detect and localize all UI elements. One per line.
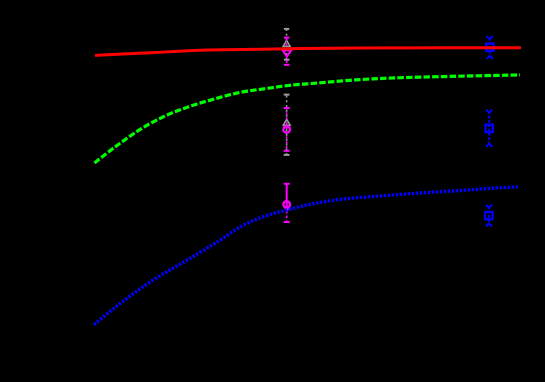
gray triangle marker B [283,119,290,125]
blue dotted curve [94,187,519,325]
magenta triangle-down marker A [283,50,292,56]
magenta circle marker C [283,201,290,208]
green dashed curve [95,75,521,163]
gray error bar point B [284,95,290,155]
blue square marker F [485,212,492,219]
blue error bar point D [487,36,493,59]
blue square marker D [486,44,493,51]
blue square marker E [486,125,493,132]
magenta error bar point C (upper limit) [284,184,290,222]
gray error bar point A [284,29,290,60]
magenta error bar point A [284,38,290,65]
blue error bar point E [486,110,492,147]
gray triangle marker A [283,40,290,46]
magenta error bar point B [284,108,290,151]
magenta down arrowhead point C [284,207,290,212]
red solid curve [95,48,521,56]
magenta circle marker B [283,126,290,133]
blue error bar point F [486,205,492,227]
